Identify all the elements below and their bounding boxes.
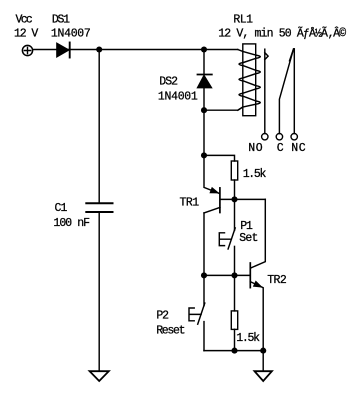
wire top rail xyxy=(33,49,238,51)
svg-text:1N4001: 1N4001 xyxy=(158,91,198,104)
diode DS1 xyxy=(57,43,69,56)
contact NC xyxy=(293,49,295,134)
svg-text:NO: NO xyxy=(248,142,263,155)
wire resistor feed xyxy=(204,155,235,161)
transistor TR1 xyxy=(219,188,221,213)
svg-text:RL1: RL1 xyxy=(233,13,253,26)
resistor R-top 1.5k xyxy=(231,161,237,180)
svg-text:C1: C1 xyxy=(55,202,68,215)
wire C1 branch lower xyxy=(98,213,100,371)
svg-text:1.5k: 1.5k xyxy=(243,168,267,181)
wire to ground right xyxy=(262,351,264,372)
relay RL1 coil winding xyxy=(238,50,260,111)
node junction C (coil bottom) xyxy=(201,107,207,113)
resistor R-bottom 1.5k xyxy=(231,311,237,330)
wire resistor2 feed xyxy=(234,275,236,311)
node junction B (rail / DS2 branch) xyxy=(201,46,207,52)
contact NO xyxy=(264,49,266,133)
svg-text:NC: NC xyxy=(291,142,306,155)
svg-text:P2: P2 xyxy=(156,310,169,323)
svg-text:1.5k: 1.5k xyxy=(236,332,260,345)
svg-text:100 nF: 100 nF xyxy=(53,217,90,230)
wire bottom rail xyxy=(204,350,263,352)
node junction E (base tee) xyxy=(231,196,237,202)
terminal Vcc xyxy=(22,45,32,55)
ground left xyxy=(90,371,109,381)
wire TR2 base rail xyxy=(204,274,250,276)
wire TR1 base xyxy=(221,198,266,200)
wire resistor to base xyxy=(234,180,236,199)
wire coil bottom link xyxy=(204,107,243,110)
relay RL1 coil box xyxy=(243,44,256,116)
contact C arm xyxy=(279,49,293,134)
wire TR2 collector link xyxy=(251,199,265,268)
svg-text:TR2: TR2 xyxy=(267,274,287,287)
capacitor C1 xyxy=(86,202,112,204)
wire C1 branch upper xyxy=(98,50,100,203)
svg-text:C: C xyxy=(277,142,284,155)
node junction G (P1 / resistor2 tee) xyxy=(231,272,237,278)
diode DS2 xyxy=(198,74,212,76)
svg-text:12 V, min 50 ÃƒÅ½Ã‚Â©: 12 V, min 50 ÃƒÅ½Ã‚Â© xyxy=(218,26,346,40)
svg-text:Set: Set xyxy=(239,232,257,245)
node junction F (collector / P2 / base rail) xyxy=(201,272,207,278)
pushbutton P2 xyxy=(203,275,205,305)
node junction D (emitter / resistor tee) xyxy=(201,152,207,158)
wire resistor2 to rail xyxy=(234,329,236,350)
node junction I (emitter / ground) xyxy=(260,348,266,354)
wire TR1 collector down xyxy=(203,213,205,275)
wire emitter branch xyxy=(203,110,205,155)
wire DS2 top xyxy=(203,50,205,75)
svg-text:TR1: TR1 xyxy=(180,196,200,209)
node junction A (rail / C1 branch) xyxy=(96,46,102,52)
svg-text:1N4007: 1N4007 xyxy=(51,27,91,40)
svg-text:12 V: 12 V xyxy=(14,27,38,40)
pushbutton P1 xyxy=(234,199,236,230)
transistor TR2 xyxy=(249,263,251,288)
svg-text:Vcc: Vcc xyxy=(16,13,33,26)
svg-text:DS2: DS2 xyxy=(159,75,178,88)
wire DS2 bottom xyxy=(203,88,205,111)
node junction H (resistor2 / rail) xyxy=(231,348,237,354)
ground right xyxy=(255,371,272,381)
svg-text:Reset: Reset xyxy=(156,324,184,337)
svg-text:P1: P1 xyxy=(240,220,253,233)
svg-text:DS1: DS1 xyxy=(52,13,70,26)
